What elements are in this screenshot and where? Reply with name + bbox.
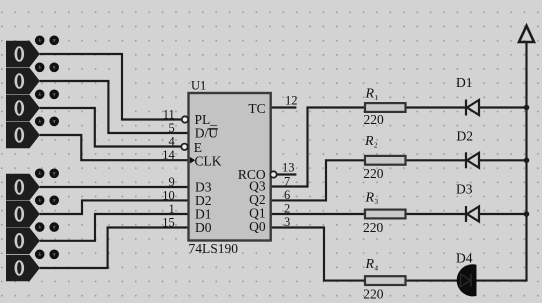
svg-text:D2: D2 (457, 128, 474, 143)
svg-text:220: 220 (363, 220, 384, 235)
svg-text:CLK: CLK (195, 154, 222, 169)
svg-text:5: 5 (169, 121, 175, 135)
svg-text:74LS190: 74LS190 (189, 241, 239, 256)
svg-text:R: R (365, 86, 375, 101)
svg-text:6: 6 (284, 188, 290, 202)
svg-text:2: 2 (374, 141, 378, 149)
svg-text:2: 2 (284, 202, 290, 216)
svg-text:D4: D4 (456, 251, 473, 266)
svg-text:R: R (365, 191, 375, 206)
svg-text:D0: D0 (195, 220, 212, 235)
svg-text:D1: D1 (456, 75, 473, 90)
svg-text:3: 3 (284, 215, 290, 229)
svg-text:D3: D3 (456, 181, 473, 196)
svg-text:R: R (365, 257, 375, 272)
svg-text:220: 220 (364, 112, 385, 127)
svg-text:1: 1 (169, 202, 175, 216)
svg-text:3: 3 (375, 198, 379, 206)
svg-text:TC: TC (248, 101, 265, 116)
svg-text:4: 4 (375, 264, 379, 272)
svg-text:4: 4 (169, 134, 176, 148)
svg-text:220: 220 (363, 166, 384, 181)
svg-text:12: 12 (285, 93, 298, 107)
svg-text:D/U: D/U (195, 126, 219, 141)
svg-text:10: 10 (162, 188, 175, 202)
svg-text:U1: U1 (191, 79, 206, 93)
svg-text:R: R (364, 134, 374, 149)
svg-text:1: 1 (375, 94, 379, 102)
svg-text:15: 15 (162, 215, 175, 229)
svg-text:14: 14 (162, 148, 175, 162)
svg-text:7: 7 (284, 175, 290, 189)
svg-text:Q0: Q0 (249, 219, 266, 234)
svg-text:9: 9 (169, 175, 175, 189)
svg-text:13: 13 (282, 160, 295, 174)
svg-text:11: 11 (163, 107, 175, 121)
svg-text:220: 220 (363, 286, 384, 301)
